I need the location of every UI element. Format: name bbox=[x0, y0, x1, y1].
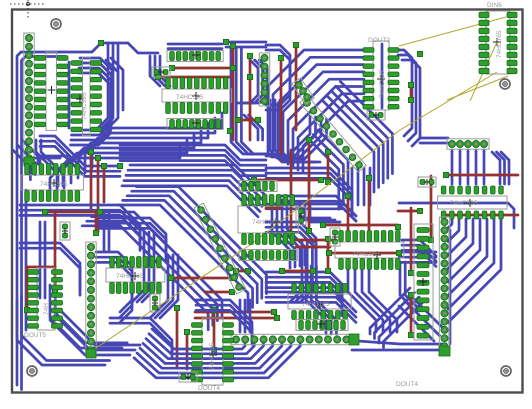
via bbox=[245, 268, 250, 273]
via bbox=[408, 270, 413, 275]
IC U1 74HC595 bbox=[35, 52, 69, 130]
wire top run bbox=[60, 43, 158, 53]
wire top layer bbox=[323, 224, 398, 227]
svg-text:74HC165: 74HC165 bbox=[252, 219, 280, 226]
wire bus bc right diag bbox=[370, 288, 424, 348]
via bbox=[223, 39, 228, 44]
wire bus q4 verts b bbox=[300, 202, 340, 222]
via bbox=[97, 209, 102, 214]
wire top layer bbox=[410, 208, 413, 273]
via bbox=[211, 347, 216, 352]
wire bus q2 left bbox=[266, 45, 290, 110]
wire bus under U7 bbox=[50, 113, 222, 198]
wire top layer bbox=[95, 212, 98, 233]
wire bus q4 verts c bbox=[290, 240, 312, 302]
via bbox=[306, 228, 311, 233]
wire top layer bbox=[347, 196, 350, 231]
wire top layer bbox=[158, 76, 230, 79]
header JP6 diagonal bbox=[194, 203, 246, 294]
wire bus q4 mid b bbox=[266, 292, 356, 322]
wire jp2 side bbox=[449, 230, 452, 344]
via bbox=[174, 305, 179, 310]
airwire bbox=[470, 42, 497, 101]
wire bus around U2 bbox=[71, 58, 113, 145]
via bbox=[233, 268, 238, 273]
wire bus y218 bbox=[100, 218, 166, 260]
wire bus q4 verts e bbox=[306, 266, 336, 334]
wire bus left edge bbox=[17, 52, 65, 390]
svg-text:74HC595: 74HC595 bbox=[81, 92, 88, 120]
wire bus u6 feed bbox=[30, 156, 68, 166]
via bbox=[325, 236, 330, 241]
capacitor C4 bbox=[150, 294, 160, 312]
capacitor C7 bbox=[330, 228, 340, 246]
via bbox=[428, 237, 433, 242]
via bbox=[395, 224, 400, 229]
airwire bbox=[399, 17, 506, 46]
via bbox=[345, 193, 350, 198]
via bbox=[211, 307, 216, 312]
wire bus jp3 left drops bbox=[240, 300, 250, 332]
IC U18 74HC165 bbox=[335, 231, 404, 270]
header JP7 bbox=[447, 139, 489, 149]
wire top layer bbox=[186, 332, 189, 369]
via bbox=[279, 268, 284, 273]
wire top layer bbox=[308, 140, 311, 231]
wire through U4 bbox=[381, 44, 384, 108]
via bbox=[93, 230, 98, 235]
wire bus right bend bbox=[492, 152, 509, 184]
via bbox=[52, 287, 57, 292]
mounting hole H2 bbox=[500, 79, 510, 89]
wire top layer bbox=[296, 239, 336, 242]
wire bus bl stairs bbox=[50, 310, 140, 355]
svg-text:74HC165: 74HC165 bbox=[352, 251, 380, 258]
via bbox=[320, 222, 325, 227]
airwire bbox=[90, 72, 497, 352]
via bbox=[417, 51, 422, 56]
via bbox=[230, 43, 235, 48]
capacitor C1 bbox=[152, 67, 170, 77]
via bbox=[366, 175, 371, 180]
mounting hole H1 bbox=[51, 19, 61, 29]
via bbox=[443, 172, 448, 177]
wire bus diag JP5 bbox=[322, 82, 392, 192]
via bbox=[417, 208, 422, 213]
via bbox=[42, 209, 47, 214]
via bbox=[408, 82, 413, 87]
via bbox=[230, 65, 235, 70]
wire bus center right b bbox=[280, 196, 356, 221]
wire top layer bbox=[446, 174, 518, 177]
header JP4 bbox=[86, 242, 96, 355]
IC U2 74HC595 bbox=[71, 57, 102, 135]
pad JP3 end bbox=[349, 334, 359, 345]
via bbox=[155, 74, 160, 79]
wire bus dout4 feed bbox=[196, 300, 252, 344]
wire top layer bbox=[254, 179, 321, 182]
wire bus q4 top bbox=[266, 204, 356, 221]
header JP3 bbox=[231, 334, 351, 344]
IC U11 74HC595 bbox=[438, 186, 507, 219]
wire top layer bbox=[195, 311, 274, 314]
svg-text:74HC595: 74HC595 bbox=[450, 200, 478, 207]
wire top layer bbox=[249, 55, 252, 140]
wire top layer bbox=[410, 84, 413, 101]
via bbox=[325, 268, 330, 273]
wire bus q4 verts bbox=[272, 199, 305, 268]
wire bus u18 drops bbox=[348, 262, 397, 332]
wire bus center bbox=[122, 165, 266, 217]
IC U12 bbox=[414, 224, 433, 340]
wire bus bl bbox=[17, 296, 110, 366]
wire top layer bbox=[296, 246, 330, 249]
wire top layer bbox=[97, 158, 100, 232]
wire bus jp3 fan bbox=[134, 329, 300, 378]
via bbox=[288, 231, 293, 236]
wire bus below U1 bbox=[40, 136, 120, 176]
wire bus jp2 feed bbox=[399, 252, 436, 262]
wire top layer bbox=[266, 207, 281, 210]
via bbox=[98, 40, 103, 45]
mounting hole H3 bbox=[27, 366, 37, 376]
wire jp2 bottom b bbox=[352, 349, 446, 352]
wire bus jp2 ll diag bbox=[399, 295, 445, 341]
pad JP2 end bbox=[439, 346, 450, 356]
svg-text:DOUT2: DOUT2 bbox=[368, 37, 390, 44]
wire top layer bbox=[45, 211, 100, 214]
via bbox=[88, 149, 93, 154]
wire top layer bbox=[232, 45, 235, 140]
IC U6 74HC595 bbox=[21, 164, 83, 202]
wire bus y205 bbox=[20, 205, 140, 250]
via bbox=[293, 42, 298, 47]
IC U17 74HC595 bbox=[192, 318, 234, 385]
wire bus y243 bbox=[20, 243, 80, 295]
via bbox=[408, 97, 413, 102]
wire bus bl elbows bbox=[50, 280, 127, 348]
wire bus q4 tl bbox=[266, 222, 316, 272]
resistor array RN6 bbox=[239, 181, 277, 192]
wire top layer bbox=[327, 239, 330, 271]
wire bus arcs b bbox=[244, 115, 263, 140]
via bbox=[325, 179, 330, 184]
via bbox=[117, 163, 122, 168]
wire bus q4 verts d bbox=[400, 262, 416, 306]
via bbox=[101, 163, 106, 168]
via bbox=[408, 292, 413, 297]
svg-text:74HC595: 74HC595 bbox=[379, 70, 386, 98]
wire top layer bbox=[176, 308, 179, 368]
wire bus x104 bbox=[104, 212, 109, 250]
wire bus q4 mid bbox=[266, 272, 342, 316]
wire header drops bbox=[452, 150, 484, 184]
wire top layer bbox=[205, 291, 232, 294]
via bbox=[95, 155, 100, 160]
header JP5 diagonal bbox=[300, 96, 366, 172]
wire bus top bbox=[226, 42, 266, 47]
wire top layer bbox=[195, 317, 277, 320]
via bbox=[168, 275, 173, 280]
svg-text:74H: 74H bbox=[43, 303, 50, 315]
wire bus x168 bbox=[150, 255, 178, 318]
wire bus dout4 feed b bbox=[110, 318, 172, 357]
wire bus x40 bbox=[40, 222, 45, 298]
wire top layer bbox=[280, 58, 283, 160]
wire bus U4 right bbox=[394, 50, 420, 146]
wire bus x230 bbox=[231, 48, 276, 154]
wire top layer bbox=[295, 45, 298, 130]
wire top layer bbox=[90, 152, 93, 210]
via bbox=[278, 55, 283, 60]
IC U5 74HC165 unplaced bbox=[479, 11, 517, 74]
wire top layer bbox=[236, 270, 248, 273]
wire jp2 bottom bbox=[358, 341, 446, 344]
via bbox=[169, 65, 174, 70]
header JP8 bbox=[259, 53, 269, 106]
resistor array RN4 bbox=[296, 320, 348, 331]
origin marker bbox=[10, 0, 46, 20]
wire top layer bbox=[172, 67, 233, 70]
svg-text:DOUT4: DOUT4 bbox=[396, 381, 418, 388]
resistor array RN1 bbox=[167, 51, 223, 62]
IC U7 74HC595 bbox=[162, 78, 232, 114]
wire between ICs bbox=[68, 62, 71, 128]
capacitor C2 bbox=[179, 372, 197, 382]
wire top layer bbox=[329, 252, 399, 255]
svg-text:74HC165: 74HC165 bbox=[116, 273, 144, 280]
via bbox=[396, 250, 401, 255]
wire top layer bbox=[238, 119, 258, 122]
svg-text:74HC595: 74HC595 bbox=[176, 94, 204, 101]
wire bus center right bbox=[266, 168, 352, 215]
IC U4 74HC595 bbox=[363, 41, 399, 110]
wire bus diag JP5 left bbox=[309, 130, 348, 209]
wire bus u18 jp2 bbox=[402, 240, 436, 266]
wire bus to header bbox=[420, 138, 448, 143]
wire top layer bbox=[368, 178, 371, 230]
svg-text:74HC595: 74HC595 bbox=[209, 342, 216, 370]
wire top layer bbox=[171, 277, 232, 280]
via bbox=[184, 329, 189, 334]
airwire bbox=[447, 76, 508, 100]
via bbox=[326, 250, 331, 255]
wire bus mid fan bbox=[266, 116, 327, 159]
header JP9 diagonal small bbox=[292, 78, 314, 104]
svg-text:DOUT4: DOUT4 bbox=[198, 385, 220, 392]
svg-text:DIN6: DIN6 bbox=[487, 2, 502, 9]
via bbox=[274, 315, 279, 320]
capacitor C8 bbox=[367, 110, 385, 120]
capacitor C3 bbox=[60, 222, 70, 240]
wire bus x144 bbox=[132, 232, 154, 302]
wire top layer bbox=[282, 270, 313, 273]
IC U20 74HC165 bbox=[238, 195, 298, 245]
pad JP1 end bbox=[24, 157, 34, 166]
pad JP4 end bbox=[86, 349, 96, 358]
IC U14 74HC595 bbox=[28, 268, 63, 330]
wire bus jp4 bbox=[96, 252, 132, 322]
wire bus x352 tails bbox=[352, 168, 370, 205]
via bbox=[235, 117, 240, 122]
wire bus above RN1 bbox=[168, 44, 222, 49]
wire bus below U1 b bbox=[36, 140, 63, 186]
via bbox=[318, 177, 323, 182]
wire bus left of U3 bbox=[150, 56, 170, 86]
svg-text:74HC595: 74HC595 bbox=[40, 181, 68, 188]
wire top run q4 bbox=[399, 203, 514, 228]
IC U15 74HC165 bbox=[106, 257, 165, 294]
resistor array RN2 bbox=[167, 119, 223, 130]
wire bus x108 bbox=[96, 43, 118, 130]
wire top layer bbox=[54, 212, 57, 290]
wire top layer bbox=[103, 166, 106, 202]
wire bus q2 mid bbox=[270, 100, 320, 162]
header JP2 bbox=[439, 217, 449, 352]
wire bus fan U4 bbox=[268, 50, 364, 173]
wire top layer bbox=[430, 176, 433, 240]
via bbox=[227, 128, 232, 133]
via bbox=[408, 332, 413, 337]
via bbox=[310, 268, 315, 273]
via bbox=[271, 309, 276, 314]
wire bus curtain bbox=[448, 219, 501, 323]
via bbox=[229, 289, 234, 294]
wire bus big staircase R bbox=[118, 187, 266, 312]
svg-text:74HC165: 74HC165 bbox=[496, 30, 503, 58]
via bbox=[247, 74, 252, 79]
svg-text:74HC125: 74HC125 bbox=[302, 301, 330, 308]
wire top layer bbox=[410, 295, 413, 335]
wire bus q1 bl elbows bbox=[12, 140, 40, 180]
via bbox=[306, 137, 311, 142]
svg-text:DOUT5: DOUT5 bbox=[24, 332, 46, 339]
resistor array RN5 bbox=[239, 250, 297, 261]
wire top layer bbox=[213, 310, 216, 350]
wire top layer bbox=[26, 267, 29, 310]
via bbox=[229, 275, 234, 280]
wire top layer bbox=[398, 210, 420, 213]
wire top layer bbox=[27, 266, 55, 269]
via bbox=[325, 149, 330, 154]
via bbox=[251, 177, 256, 182]
wire left vertical bbox=[25, 190, 28, 330]
header JP1 bbox=[24, 33, 34, 163]
wire top layer bbox=[327, 152, 330, 182]
via bbox=[255, 117, 260, 122]
wire bus arcs bbox=[238, 60, 267, 103]
wire bus big staircase L bbox=[82, 212, 222, 330]
wire bus mid right bbox=[120, 145, 266, 176]
capacitor C6 bbox=[296, 207, 306, 225]
capacitor C5 bbox=[418, 177, 436, 187]
via bbox=[24, 307, 29, 312]
via bbox=[247, 53, 252, 58]
wire bus around U2 outer bbox=[106, 58, 123, 112]
mounting hole H4 bbox=[501, 366, 511, 376]
wire top layer bbox=[444, 214, 518, 217]
IC U13 74HC125 bbox=[288, 284, 351, 320]
wire top layer bbox=[290, 150, 293, 234]
